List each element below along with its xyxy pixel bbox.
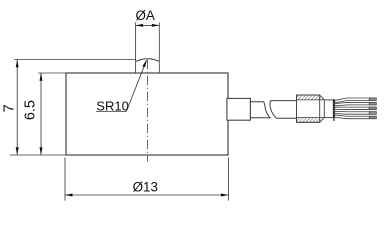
dimension line 6.5: [40, 73, 42, 155]
wire 5: [335, 115, 370, 119]
sensor body outline: [66, 73, 228, 155]
Ø13 dimension line: [65, 194, 228, 196]
svg-text:6.5: 6.5: [23, 100, 39, 120]
wire 2: [335, 102, 370, 106]
cable segment 1 (with break): [250, 102, 270, 118]
dimension extension line for 6.5 (top): [38, 72, 66, 74]
SR10 leader line: [96, 111, 126, 113]
wire 5 tip: [369, 116, 376, 119]
dimension extension line for 7 (top): [14, 59, 135, 61]
ØA extension line left: [135, 23, 137, 74]
svg-text:Ø13: Ø13: [133, 180, 158, 195]
svg-text:SR10: SR10: [96, 98, 129, 113]
Ø13 extension line left: [64, 158, 66, 201]
svg-text:ØA: ØA: [136, 8, 155, 23]
bottom extension line (left of body): [10, 154, 66, 156]
spherical top arc SR10: [136, 59, 160, 62]
ØA extension line right: [158, 23, 160, 74]
wire 1 tip: [369, 98, 376, 101]
dimension line 7: [16, 60, 18, 156]
wire 3: [335, 107, 370, 109]
wire 3 tip: [369, 107, 376, 110]
centerline: [146, 60, 148, 162]
shield sleeve hatched top band: [297, 95, 325, 100]
wire 4 tip: [369, 112, 376, 115]
cable segment 2 (after break): [270, 101, 296, 119]
inner sleeve: [324, 100, 333, 118]
wire 2 tip: [369, 102, 376, 105]
Ø13 extension line right: [227, 158, 229, 201]
shield sleeve body: [297, 95, 320, 122]
wire 4: [335, 111, 370, 114]
ØA dimension line: [136, 24, 160, 26]
sleeve end cap: [333, 99, 334, 121]
shield sleeve hatched bottom band: [297, 118, 325, 123]
wire 1: [335, 98, 370, 103]
svg-text:7: 7: [2, 104, 18, 112]
cable boot: [227, 98, 251, 120]
